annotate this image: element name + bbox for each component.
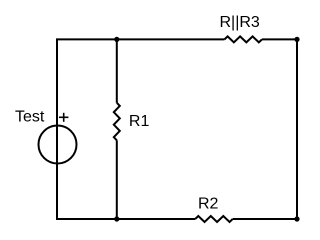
svg-text:Test: Test [15, 109, 45, 126]
resistor R1 [114, 103, 120, 141]
wire right vertical (node B to node D) [296, 38, 298, 220]
junction node A [114, 37, 119, 42]
svg-text:R1: R1 [129, 113, 150, 130]
resistor R||R3 [225, 36, 263, 42]
wire bottom-left horizontal (source to R2) [57, 218, 195, 220]
wire left vertical (through source) [56, 38, 58, 220]
wire middle vertical lower (R1 to node C) [116, 140, 118, 219]
junction node C [114, 216, 119, 221]
svg-text:R2: R2 [198, 196, 219, 213]
resistor R2 [195, 216, 233, 222]
polarity plus sign [59, 113, 68, 122]
junction node D [294, 216, 299, 221]
wire middle vertical upper (node A to R1) [116, 39, 118, 102]
wire top-right horizontal (R||R3 to node B) [262, 38, 297, 40]
svg-text:R||R3: R||R3 [220, 14, 260, 31]
source Test (circle) [39, 126, 77, 164]
wire top-left horizontal (node A to resistor R||R3) [57, 38, 225, 40]
wire bottom-right horizontal (R2 to node D) [233, 218, 297, 220]
junction node B [294, 37, 299, 42]
